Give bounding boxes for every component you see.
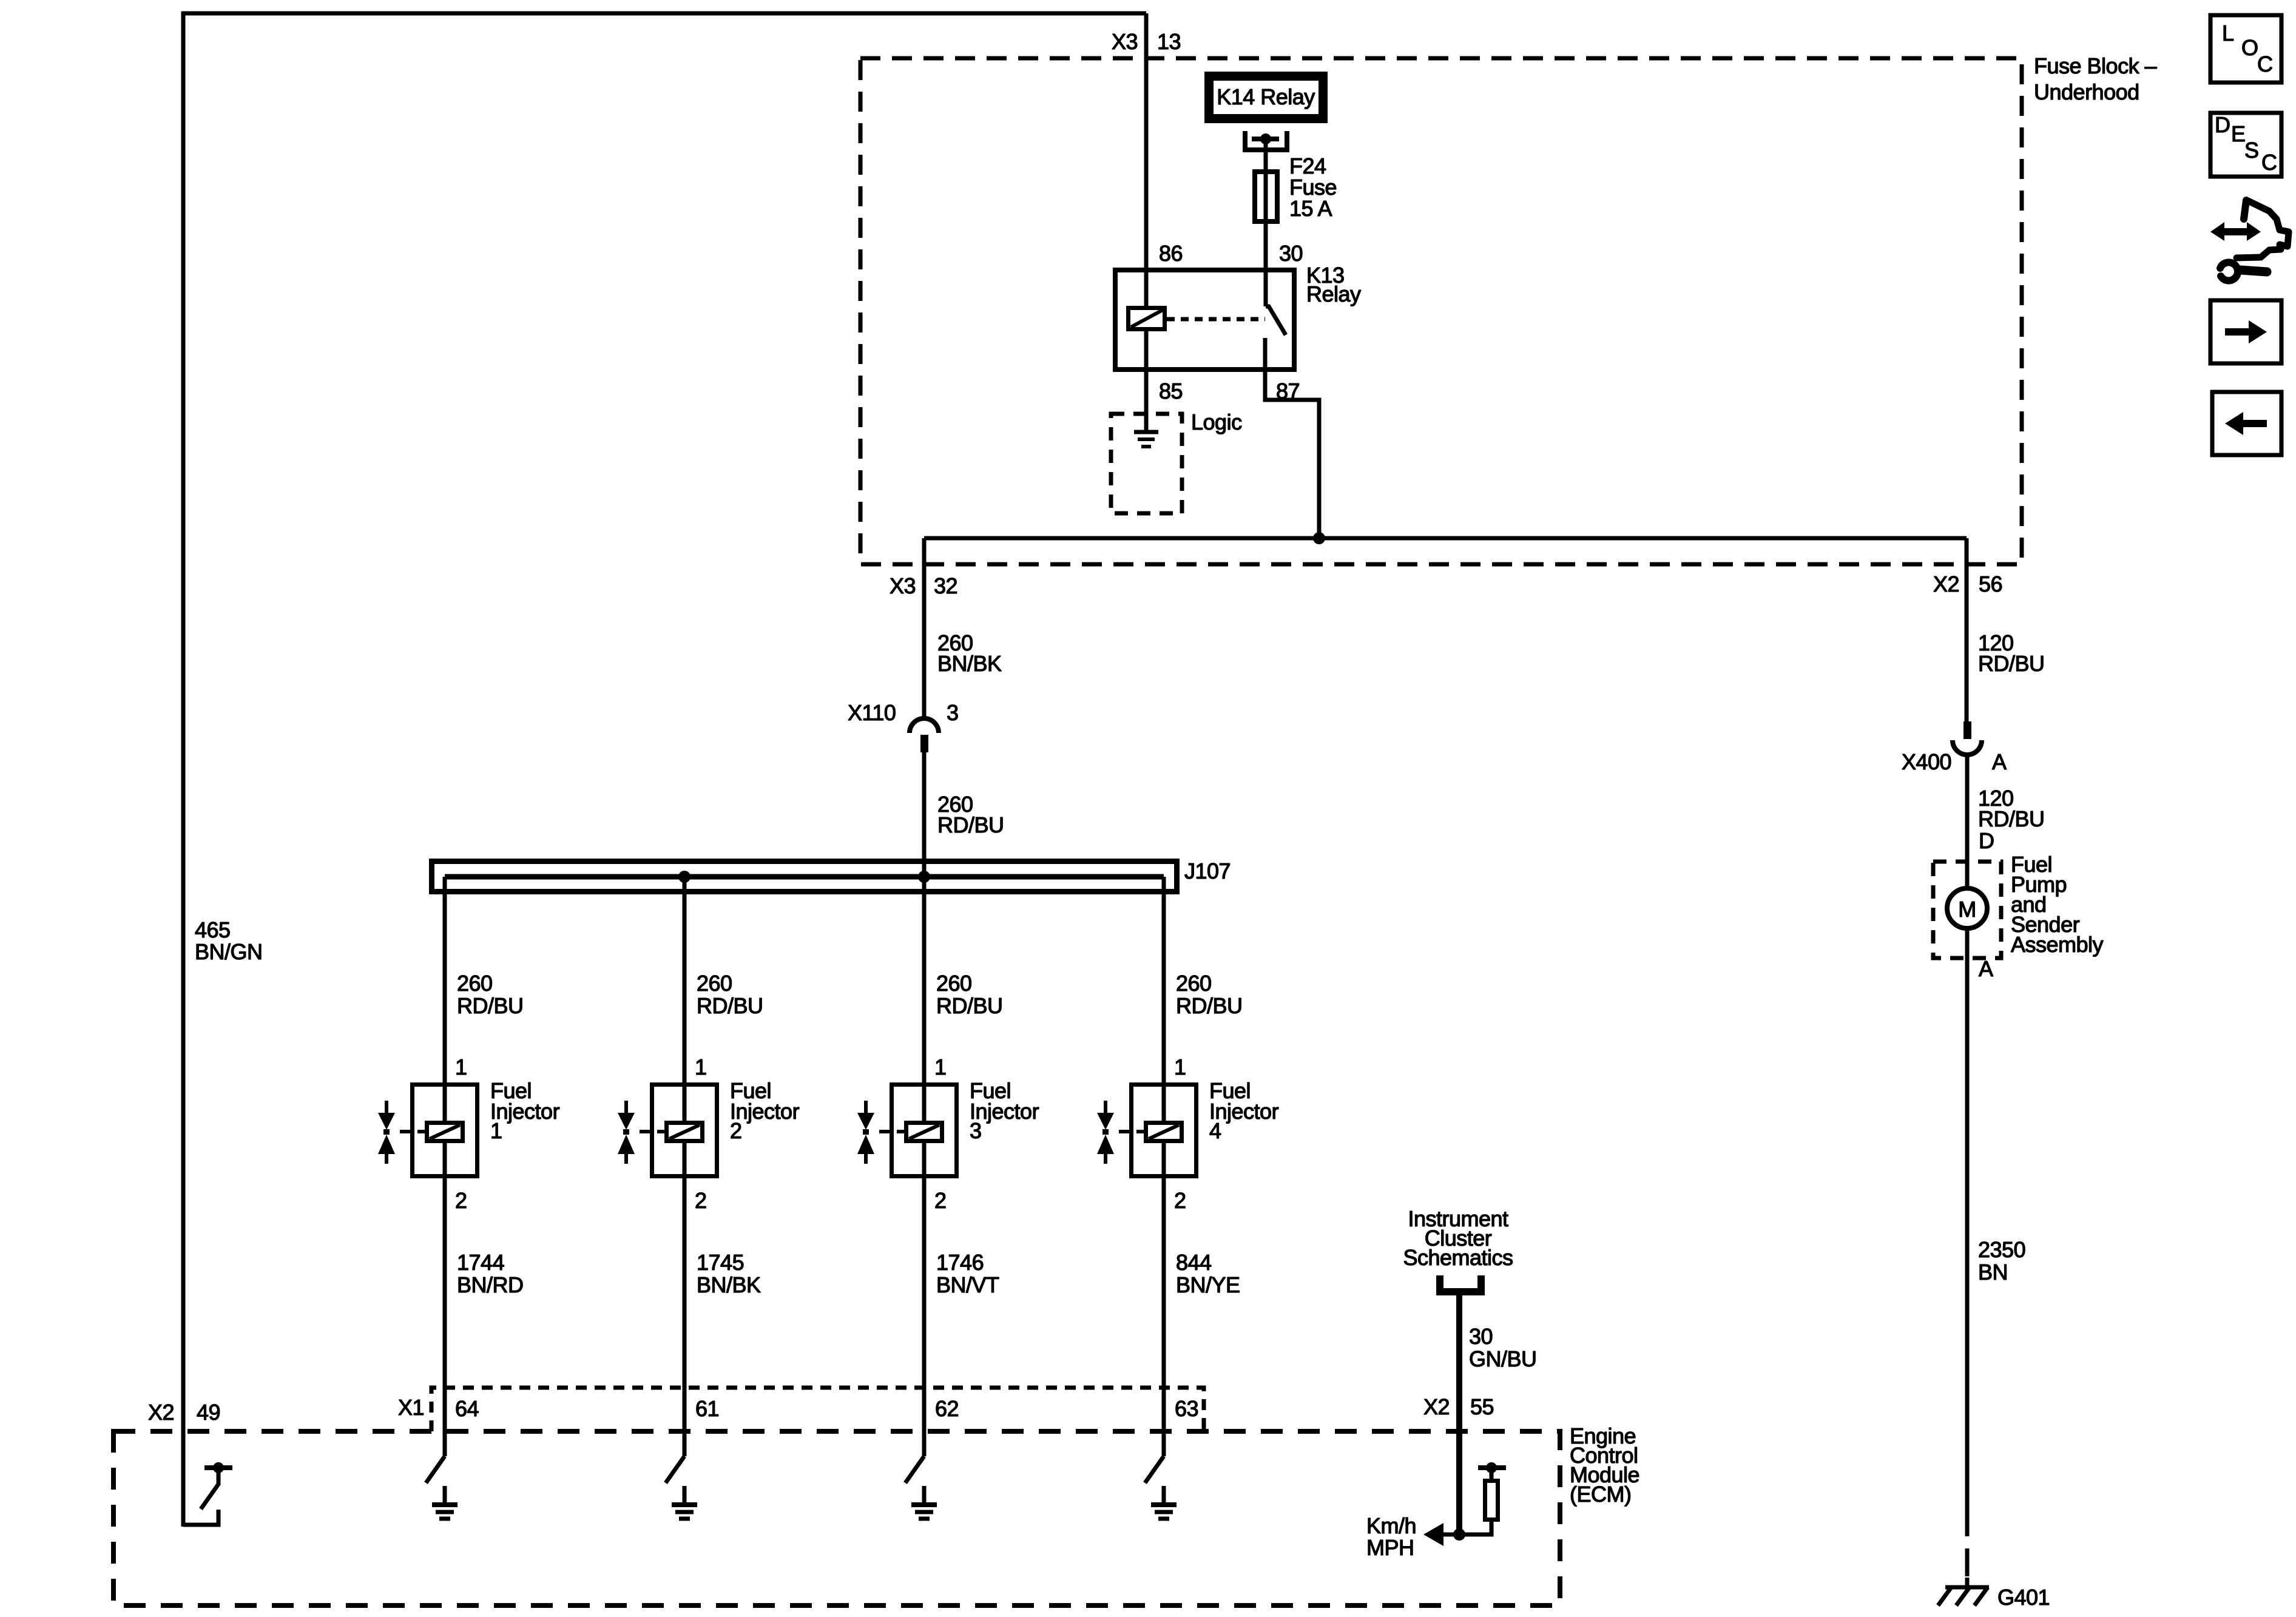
- junction dot on K14 terminal: [1260, 133, 1271, 144]
- K14 Relay label box: [1209, 76, 1323, 119]
- fuel injector 2 coil: [667, 1123, 703, 1141]
- svg-text:E: E: [2231, 121, 2246, 146]
- svg-text:30: 30: [1469, 1324, 1493, 1349]
- svg-text:BN/GN: BN/GN: [195, 939, 263, 964]
- svg-text:2350: 2350: [1978, 1237, 2025, 1262]
- ground symbol injector 3 driver: [922, 1486, 927, 1505]
- svg-text:RD/BU: RD/BU: [936, 993, 1003, 1018]
- svg-text:3: 3: [947, 700, 959, 725]
- svg-text:C: C: [2257, 52, 2273, 76]
- svg-text:M: M: [1958, 897, 1976, 922]
- svg-text:85: 85: [1159, 379, 1183, 403]
- Logic dashed box: [1111, 414, 1182, 513]
- svg-text:260: 260: [1176, 971, 1212, 996]
- ground symbol injector 1 driver: [443, 1486, 447, 1505]
- svg-text:A: A: [1979, 956, 1993, 981]
- svg-text:62: 62: [935, 1396, 959, 1421]
- fuel injector 3 box: [892, 1085, 957, 1176]
- fuel pump motor M: [1947, 888, 1987, 928]
- svg-text:55: 55: [1470, 1394, 1494, 1419]
- svg-text:2: 2: [730, 1118, 742, 1143]
- junction dot J107 center feed: [918, 871, 930, 883]
- svg-text:1: 1: [490, 1118, 502, 1143]
- junction dot at relay 87 feed: [1313, 532, 1325, 544]
- wire pump to ground 2350 BN: [1965, 928, 1970, 1508]
- svg-text:2: 2: [455, 1188, 467, 1213]
- wire X400 down to fuel pump: [1965, 755, 1970, 888]
- junction dot at speed signal branch: [1453, 1528, 1465, 1541]
- junction dot J107 injector 2: [678, 871, 690, 883]
- svg-text:49: 49: [197, 1400, 220, 1425]
- svg-text:G401: G401: [1997, 1585, 2050, 1610]
- Fuse Block - Underhood dashed enclosure: [860, 58, 2022, 564]
- svg-text:3: 3: [970, 1118, 982, 1143]
- svg-text:Assembly: Assembly: [2011, 932, 2104, 957]
- Fuel Pump and Sender Assembly dashed box: [1933, 862, 2001, 958]
- relay K13 box: [1115, 270, 1294, 370]
- svg-text:BN/YE: BN/YE: [1176, 1272, 1240, 1297]
- svg-text:D: D: [2215, 112, 2230, 137]
- wire 30 GN/BU from instrument cluster to ECM pin 55: [1456, 1295, 1462, 1534]
- wire injector 2 pin 2 down to ECM: [683, 1141, 687, 1456]
- wire X3 13 down to relay coil pin 86: [1144, 13, 1149, 307]
- connector X400 pin A (terminal and cup): [1963, 721, 1971, 739]
- svg-text:30: 30: [1279, 241, 1303, 266]
- svg-text:63: 63: [1175, 1396, 1198, 1421]
- forward arrow icon box: [2210, 300, 2281, 363]
- svg-text:L: L: [2222, 21, 2234, 46]
- svg-text:465: 465: [195, 917, 231, 942]
- wire from K14 terminal through fuse to relay pin 30: [1264, 139, 1268, 306]
- ECM driver injector 3 (pin 62): [905, 1456, 924, 1483]
- svg-text:S: S: [2244, 138, 2259, 163]
- back arrow icon box: [2212, 392, 2281, 455]
- wire J107 to injector 4: [1162, 877, 1166, 1122]
- svg-text:K14 Relay: K14 Relay: [1217, 84, 1315, 109]
- wire injector 3 pin 2 down to ECM: [922, 1141, 927, 1456]
- wire injector 1 pin 2 down to ECM: [443, 1141, 447, 1456]
- wire J107 to injector 3: [922, 877, 927, 1122]
- svg-text:GN/BU: GN/BU: [1469, 1346, 1537, 1371]
- relay switch blade pin30 to contact: [1266, 306, 1286, 335]
- svg-text:BN/BK: BN/BK: [697, 1272, 761, 1297]
- svg-text:1: 1: [455, 1055, 467, 1079]
- wire J107 to injector 1: [443, 877, 447, 1122]
- svg-text:1: 1: [695, 1055, 707, 1079]
- svg-text:87: 87: [1276, 379, 1300, 403]
- svg-text:X2: X2: [148, 1400, 174, 1425]
- ground symbol injector 2 driver: [683, 1486, 687, 1505]
- LOC icon box: [2210, 15, 2281, 83]
- main feed wire from relay 87 across fuse block bottom: [924, 536, 1967, 541]
- ECM driver injector 2 (pin 61): [666, 1456, 684, 1483]
- off-page connector bracket to instrument cluster: [1440, 1275, 1481, 1292]
- svg-text:RD/BU: RD/BU: [1978, 806, 2045, 831]
- svg-text:X3: X3: [890, 573, 916, 598]
- svg-text:D: D: [1979, 828, 1994, 853]
- relay actuation dashed link: [1167, 317, 1265, 322]
- svg-text:Km/h: Km/h: [1366, 1513, 1416, 1538]
- svg-text:X400: X400: [1902, 749, 1951, 774]
- coil diagonal: [1131, 310, 1163, 327]
- fuse F24 15A body: [1255, 172, 1277, 221]
- svg-text:RD/BU: RD/BU: [1978, 651, 2045, 676]
- svg-text:Relay: Relay: [1306, 282, 1361, 306]
- svg-text:Underhood: Underhood: [2034, 79, 2139, 104]
- J107 inner bus bar: [445, 874, 1164, 880]
- svg-text:86: 86: [1159, 241, 1183, 266]
- relay K13 coil: [1129, 308, 1165, 329]
- svg-text:X1: X1: [398, 1395, 424, 1420]
- ECM driver for pin 49 (fuel pump relay control): [183, 1510, 218, 1525]
- svg-text:15 A: 15 A: [1289, 196, 1332, 221]
- splice pack J107 outer bar: [432, 862, 1177, 892]
- svg-text:BN/VT: BN/VT: [936, 1272, 999, 1297]
- svg-text:4: 4: [1209, 1118, 1221, 1143]
- ECM driver injector 1 (pin 64): [426, 1456, 445, 1483]
- fuel injector 3 coil: [907, 1123, 942, 1141]
- svg-text:2: 2: [934, 1188, 947, 1213]
- svg-text:844: 844: [1176, 1250, 1212, 1275]
- wire X110 down to J107: [922, 752, 927, 877]
- diagnostic tool icon (double arrow): [2210, 222, 2261, 241]
- fuel injector 2 valve symbol: [624, 1101, 628, 1115]
- svg-text:1: 1: [1174, 1055, 1186, 1079]
- X1 connector dotted boundary: [431, 1388, 1204, 1431]
- diagnostic tool icon (wrench): [2240, 270, 2267, 272]
- wire relay pin 85 down to logic ground: [1144, 331, 1149, 432]
- svg-text:MPH: MPH: [1366, 1535, 1414, 1560]
- DESC icon box: [2210, 113, 2281, 177]
- svg-text:1744: 1744: [457, 1250, 504, 1275]
- chassis ground G401: [1945, 1585, 1989, 1590]
- Engine Control Module dashed enclosure: [113, 1431, 1560, 1605]
- svg-text:56: 56: [1979, 572, 2002, 596]
- fuel injector 4 box: [1132, 1085, 1197, 1176]
- fuel injector 1 box: [413, 1085, 478, 1176]
- svg-text:X3: X3: [1112, 29, 1138, 54]
- svg-text:13: 13: [1157, 29, 1181, 54]
- svg-text:RD/BU: RD/BU: [937, 812, 1004, 837]
- svg-text:2: 2: [1174, 1188, 1186, 1213]
- wire 465 BN/GN left vertical + top horizontal to X3 13: [183, 13, 1146, 1527]
- svg-text:BN/RD: BN/RD: [457, 1272, 524, 1297]
- K14 relay terminal cup: [1245, 131, 1287, 150]
- svg-text:RD/BU: RD/BU: [1176, 993, 1243, 1018]
- svg-text:RD/BU: RD/BU: [697, 993, 763, 1018]
- svg-text:RD/BU: RD/BU: [457, 993, 524, 1018]
- svg-text:1745: 1745: [697, 1250, 744, 1275]
- svg-text:X2: X2: [1933, 572, 1959, 596]
- svg-text:Schematics: Schematics: [1403, 1245, 1513, 1270]
- svg-text:Logic: Logic: [1191, 410, 1242, 434]
- svg-text:Fuse Block –: Fuse Block –: [2034, 53, 2157, 78]
- wire injector 4 pin 2 down to ECM: [1162, 1141, 1166, 1456]
- Km/h MPH signal arrow: [1442, 1533, 1459, 1537]
- relay pin 87 wire down and right to bus: [1265, 338, 1319, 538]
- svg-text:260: 260: [697, 971, 732, 996]
- svg-text:X110: X110: [848, 700, 896, 725]
- svg-text:2: 2: [695, 1188, 707, 1213]
- fuel injector 4 coil: [1146, 1123, 1182, 1141]
- svg-text:BN/BK: BN/BK: [937, 651, 1002, 676]
- ground symbol injector 4 driver: [1162, 1486, 1166, 1505]
- fuel injector 1 coil: [427, 1123, 463, 1141]
- fuel injector 4 valve symbol: [1104, 1101, 1107, 1115]
- svg-text:1746: 1746: [936, 1250, 984, 1275]
- wire X2 56 down from bus: [1965, 538, 1969, 721]
- svg-text:O: O: [2241, 35, 2258, 60]
- wire X3 32 down from bus: [922, 538, 927, 719]
- dashed harness portion of ground wire: [1965, 1508, 1970, 1579]
- svg-text:260: 260: [936, 971, 972, 996]
- svg-text:64: 64: [455, 1396, 479, 1421]
- svg-text:BN: BN: [1978, 1260, 2008, 1284]
- resistor pull-up inside ECM: [1459, 1522, 1491, 1534]
- ECM driver injector 4 (pin 63): [1145, 1456, 1164, 1483]
- svg-text:X2: X2: [1423, 1394, 1450, 1419]
- svg-text:C: C: [2261, 150, 2277, 175]
- svg-text:1: 1: [934, 1055, 947, 1079]
- svg-text:(ECM): (ECM): [1570, 1482, 1631, 1507]
- fuel injector 2 box: [652, 1085, 717, 1176]
- fuel injector 3 valve symbol: [864, 1101, 868, 1115]
- svg-text:260: 260: [457, 971, 493, 996]
- svg-text:61: 61: [695, 1396, 719, 1421]
- svg-text:J107: J107: [1184, 859, 1231, 883]
- connector X110 pin 3 (cap and terminal): [910, 718, 939, 733]
- fuel injector 1 valve symbol: [385, 1101, 388, 1115]
- K14 terminal crossbar: [1252, 137, 1279, 141]
- logic ground symbol: [1134, 430, 1158, 434]
- wire J107 to injector 2: [683, 877, 687, 1122]
- svg-text:32: 32: [934, 573, 957, 598]
- diagnostic tool icon (harness outline): [2244, 200, 2246, 219]
- svg-text:A: A: [1992, 749, 2007, 774]
